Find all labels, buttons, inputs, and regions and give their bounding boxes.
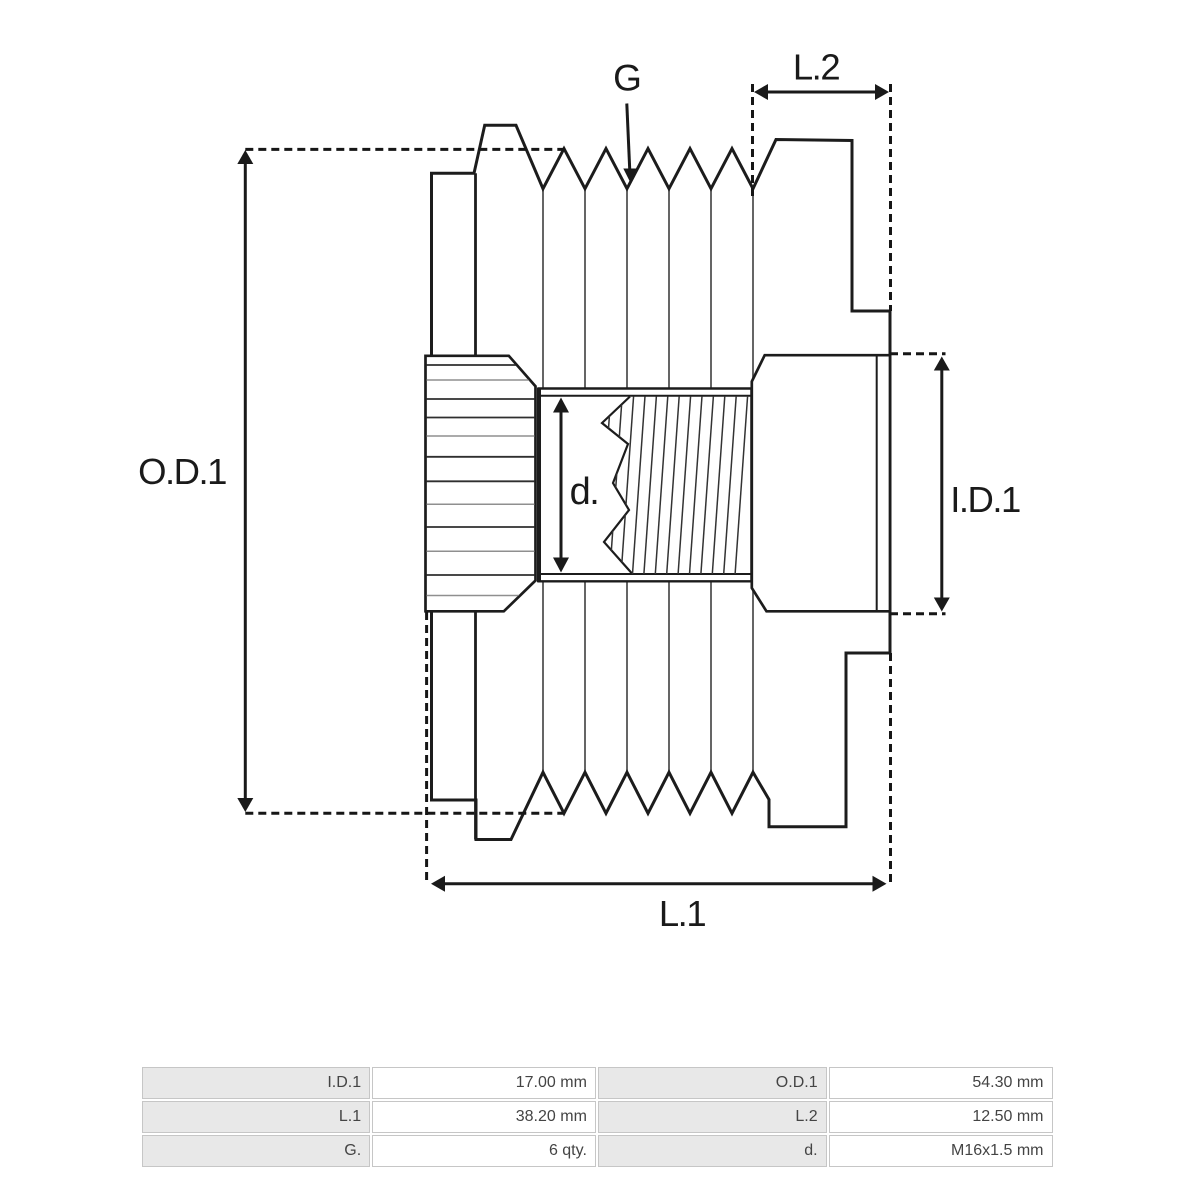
svg-text:d.: d. [570,471,599,513]
svg-text:I.D.1: I.D.1 [950,479,1020,520]
svg-text:G: G [613,58,641,99]
svg-text:L.1: L.1 [659,893,705,934]
svg-text:O.D.1: O.D.1 [138,451,226,492]
svg-text:L.2: L.2 [793,47,839,88]
